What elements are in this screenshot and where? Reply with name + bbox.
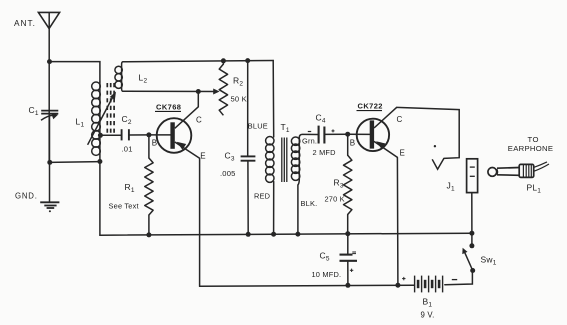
switch Sw1 blade: [465, 252, 473, 271]
inductor L2: [115, 62, 123, 92]
capacitor C1 (variable): [41, 111, 58, 121]
node switch bottom contact: [470, 268, 475, 273]
C4 polarity marks: [308, 131, 311, 133]
battery B1: [415, 276, 443, 293]
Q1 emitter lead: [175, 142, 200, 158]
Q2 emitter lead: [374, 141, 397, 157]
Q1 emitter arrowhead (PNP): [177, 142, 187, 150]
wire tap to C2: [100, 134, 120, 136]
svg-text:9 V.: 9 V.: [421, 311, 435, 320]
wire base node to Q2 base: [348, 133, 370, 135]
svg-text:B: B: [350, 139, 356, 148]
Q1 collector lead: [175, 107, 199, 129]
capacitor C3 .005: [241, 156, 256, 160]
wire L1 spine down through tap to bottom bus corner: [99, 82, 101, 235]
wire C4 to Q2 base node: [325, 133, 348, 135]
antenna ANT: [38, 12, 59, 28]
wire antenna junction to L1 top: [50, 62, 100, 82]
node lower bus Q2 emitter: [395, 283, 400, 288]
wire base node to Q1 base: [149, 134, 171, 136]
wire Q2 emitter down crossing bus to lower bus: [396, 157, 399, 285]
svg-text:.01: .01: [122, 145, 133, 154]
capacitor C2 .01: [122, 129, 129, 140]
wire bus to switch top contact: [471, 233, 473, 246]
plug PL1: [488, 164, 534, 177]
node Q1 base / R1 / C2: [146, 132, 151, 137]
core (dashed) between L1 and L2: [107, 83, 114, 134]
wire main common bus: [100, 233, 472, 235]
svg-text:50 K: 50 K: [231, 95, 247, 104]
wire C1 bottom to ground node: [49, 115, 51, 203]
capacitor C4 2MFD (electrolytic): [319, 126, 325, 144]
plug cord: [534, 162, 549, 171]
wire C5 bottom lead: [347, 262, 349, 286]
node Q1 collector / L2: [196, 89, 201, 94]
svg-text:CK768: CK768: [156, 102, 181, 111]
node bus C3: [246, 232, 251, 237]
wire R3 bottom lead: [347, 215, 349, 234]
wire C2 to base node of Q1: [129, 134, 149, 136]
svg-text:270 K: 270 K: [325, 195, 345, 204]
transistor Q1 CK768: [157, 118, 192, 153]
node switch top contact: [469, 243, 474, 248]
ground: [40, 202, 59, 208]
wire R1 bottom lead: [148, 215, 150, 235]
R2 wiper arrowhead: [213, 89, 219, 95]
wire T1 primary bottom lead to bus: [273, 182, 275, 235]
wire lower bus left segment: [200, 285, 415, 286]
capacitor C5 10MFD (electrolytic): [340, 255, 358, 261]
svg-text:Grn.: Grn.: [302, 137, 317, 146]
wire L2 bottom rail to R2 wiper: [123, 90, 217, 92]
transformer T1 core: [282, 138, 287, 183]
wire C3 branch top: [247, 61, 249, 156]
wire top rail L2 to T1 primary corner: [123, 61, 273, 62]
transformer T1 primary winding: [266, 137, 274, 183]
wire lower-left horizontal C1/GND column to L1 bottom: [50, 161, 100, 164]
Q2 emitter arrowhead (PNP): [376, 141, 386, 149]
node lower bus C5: [345, 283, 350, 288]
node L1 bottom junction: [97, 159, 102, 164]
node bus J1/switch: [469, 231, 474, 236]
resistor R1: [145, 158, 153, 215]
svg-text:TO: TO: [528, 135, 540, 144]
wire lower bus right of battery to switch: [445, 271, 473, 285]
svg-text:BLK.: BLK.: [301, 199, 318, 208]
wire C5 top lead: [347, 234, 349, 254]
svg-text:GND.: GND.: [15, 191, 38, 200]
wire T1 primary top lead: [272, 61, 275, 138]
node L1 tap: [98, 133, 103, 138]
resistor R2 50K (rheostat): [219, 64, 227, 115]
svg-text:C: C: [397, 115, 403, 124]
transformer T1 secondary winding: [291, 137, 299, 180]
C5 polarity marks: [350, 252, 356, 272]
wire T1 secondary green lead to C4: [299, 134, 318, 137]
node bus T1 primary: [271, 232, 276, 237]
wire J1 sleeve lead to bus: [471, 193, 473, 234]
node C1/GND junction: [47, 160, 52, 165]
tuning arrow through L1: [88, 98, 113, 145]
label CK768 underline: [155, 110, 181, 112]
svg-text:E: E: [400, 149, 406, 158]
svg-text:RED: RED: [254, 192, 270, 201]
inductor L1: [92, 82, 101, 155]
svg-text:BLUE: BLUE: [248, 122, 268, 131]
wire R1 top lead: [148, 135, 150, 158]
wire Q1 collector riser: [197, 92, 199, 107]
svg-text:C: C: [196, 116, 202, 125]
svg-text:EARPHONE: EARPHONE: [508, 144, 554, 153]
transistor Q2 CK722: [357, 119, 389, 151]
label CK722 underline: [357, 110, 383, 112]
jack J1 body: [467, 159, 478, 193]
jack tip spring (hook): [432, 158, 444, 169]
svg-text:10 MFD.: 10 MFD.: [312, 270, 342, 279]
svg-text:E: E: [200, 152, 206, 161]
svg-text:ANT.: ANT.: [14, 18, 36, 28]
node bus R1: [146, 232, 151, 237]
battery - mark: [452, 279, 457, 281]
wire R3 top lead: [347, 134, 349, 155]
wire C3 bottom to bus: [247, 161, 249, 234]
svg-text:See Text: See Text: [109, 202, 139, 211]
wire Q1 emitter down crossing bus to lower bus: [199, 158, 201, 286]
node top rail C3: [245, 58, 250, 63]
svg-text:B: B: [152, 138, 158, 147]
svg-text:CK722: CK722: [358, 102, 383, 111]
wire R2 top lead: [222, 61, 224, 64]
node top rail R2: [221, 58, 226, 63]
wire antenna lead down to C1/GND column: [48, 13, 50, 163]
node antenna junction: [47, 59, 52, 64]
wire T1 secondary bottom lead to bus: [298, 179, 299, 234]
svg-text:.005: .005: [220, 169, 236, 178]
wire Q2 collector loop to jack hook: [397, 107, 460, 158]
node Q2 base / R3 / C4: [345, 132, 350, 137]
battery + mark: [402, 277, 405, 280]
node bus C5/R3: [345, 231, 350, 236]
svg-text:2 MFD: 2 MFD: [313, 148, 336, 157]
node bus T1 secondary: [295, 232, 300, 237]
resistor R3 270K: [344, 155, 352, 214]
Q2 collector lead: [374, 107, 397, 128]
